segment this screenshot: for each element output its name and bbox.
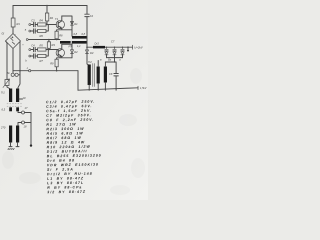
wire cascade lower rail (107, 58, 123, 62)
Tr2 core (93, 64, 95, 87)
winding Tr2 primary lower (60, 41, 71, 44)
svg-text:R1: R1 (17, 22, 21, 26)
node junction dots left (19, 70, 21, 72)
cascade branch capacitor C5a (105, 47, 108, 52)
resistor R7 (38, 54, 46, 57)
diode D3 (86, 46, 88, 48)
resistor R4 (38, 23, 46, 26)
wire R2 drop (46, 6, 48, 14)
wire aux lead upper (19, 98, 22, 100)
terminal row a1 (29, 24, 31, 26)
capacitor C8 (114, 62, 118, 90)
terminal socket 17 (22, 111, 25, 114)
diode D1 (71, 22, 74, 26)
wire HV rail (87, 46, 133, 48)
svg-text:0,8: 0,8 (74, 32, 78, 36)
svg-text:6,3: 6,3 (2, 108, 6, 112)
terminal c (29, 70, 31, 72)
svg-text:C4: C4 (31, 44, 35, 48)
svg-text:(2): (2) (68, 44, 71, 48)
resistor R9 (55, 59, 58, 67)
wire right bus down (30, 113, 32, 146)
svg-text:D3: D3 (90, 51, 94, 55)
transformer Tr2 secondary b (104, 67, 107, 83)
capacitor C6 (31, 54, 38, 58)
svg-text:2?0: 2?0 (0, 126, 6, 130)
svg-text:D1: D1 (74, 22, 78, 26)
wire T2 collector loop (62, 44, 72, 50)
svg-text:Gl: Gl (2, 32, 5, 36)
wire VDR to winding (7, 86, 10, 89)
winding Tr2 primary upper (72, 36, 87, 39)
transistor T1 (56, 20, 64, 28)
svg-text:R3: R3 (52, 43, 56, 47)
resistor R6 (38, 29, 46, 32)
terminal socket 18 (22, 121, 25, 124)
terminal HV output (132, 45, 134, 49)
terminal row a2 (29, 30, 31, 32)
svg-text:C7: C7 (111, 39, 115, 43)
parts list text block (46, 100, 102, 195)
node bus end (30, 144, 32, 146)
Tr1 core (7, 104, 22, 106)
cascade branch capacitor C5c (121, 47, 124, 52)
wire T2 emitter (57, 57, 72, 60)
resistor R2 (45, 13, 48, 21)
resistor R1 (11, 18, 15, 27)
wire R1 top (12, 6, 14, 19)
svg-text:220V: 220V (7, 147, 16, 151)
transformer Tr2 HV primary (88, 65, 91, 86)
svg-text:U≈2kV: U≈2kV (134, 45, 144, 49)
capacitor C1 (31, 29, 38, 33)
varistor VDR (5, 80, 9, 86)
svg-text:1,5kV: 1,5kV (140, 87, 147, 90)
paper mottling (2, 68, 145, 195)
wire bridge bottom down (12, 49, 14, 71)
wire bridge left down (6, 41, 8, 80)
transistor T2 (56, 49, 64, 57)
svg-text:Tr2: Tr2 (88, 60, 92, 64)
wire socket 18 leads (18, 123, 31, 126)
svg-text:1,1: 1,1 (77, 44, 81, 48)
wire mains terminals (9, 143, 19, 147)
capacitor C2 (85, 6, 89, 48)
wire Tr2 leads (89, 61, 116, 91)
capacitor C4 (31, 47, 38, 51)
svg-text:R7: R7 (40, 59, 44, 63)
wire bridge right down (18, 42, 20, 89)
svg-text:C3: C3 (31, 19, 35, 23)
capacitor C3 (31, 22, 38, 26)
wire bottom rail (78, 88, 138, 90)
svg-text:R6: R6 (40, 34, 44, 38)
wire top rail (13, 5, 87, 7)
svg-text:0,8: 0,8 (82, 32, 86, 36)
terminal bottom output (137, 86, 139, 89)
svg-text:R2: R2 (50, 16, 54, 20)
wire T1 emitter (57, 28, 72, 31)
diode D2 (71, 50, 74, 54)
cascade diode D6 (121, 52, 124, 55)
transformer Tr2 secondary a (97, 67, 100, 84)
wire socket to right bus (25, 112, 32, 114)
terminal row b1 (29, 49, 31, 51)
svg-text:R5: R5 (40, 44, 44, 48)
svg-text:C8: C8 (109, 72, 113, 76)
resistor R3 (48, 40, 50, 42)
wire aux lead (18, 111, 21, 114)
terminal row b2 (29, 55, 31, 57)
wire T1 collector loop (62, 16, 72, 36)
choke Dr3 (93, 46, 105, 49)
wire ground rail drop (77, 71, 79, 91)
svg-text:3/2 BY 88-47Z: 3/2 BY 88-47Z (47, 190, 86, 195)
wire mid rail b (27, 39, 60, 41)
transformer Tr1 secondary winding (9, 89, 12, 103)
resistor R5 (38, 48, 46, 51)
resistor R8 (55, 31, 58, 39)
svg-text:Tr1: Tr1 (1, 91, 5, 95)
fuse Si (12, 71, 14, 73)
svg-text:R8: R8 (59, 34, 63, 38)
svg-text:R9: R9 (50, 62, 54, 66)
svg-text:D2: D2 (74, 50, 78, 54)
node stub (127, 46, 129, 48)
cascade branch capacitor C5b (113, 47, 116, 52)
wire R1 to bridge (12, 27, 14, 34)
cascade diode D5 (113, 52, 116, 55)
Tr1 aux winding (9, 107, 12, 111)
svg-text:Dr3: Dr3 (95, 41, 100, 45)
cascade diode D4 (105, 52, 108, 55)
svg-text:R4: R4 (40, 19, 44, 23)
transformer Tr1 primary winding 220V (9, 126, 12, 143)
paper background (0, 0, 148, 200)
svg-text:C2: C2 (90, 14, 94, 18)
bridge rectifier Gl (6, 34, 21, 49)
wire horizontal to terminal c (13, 70, 78, 72)
